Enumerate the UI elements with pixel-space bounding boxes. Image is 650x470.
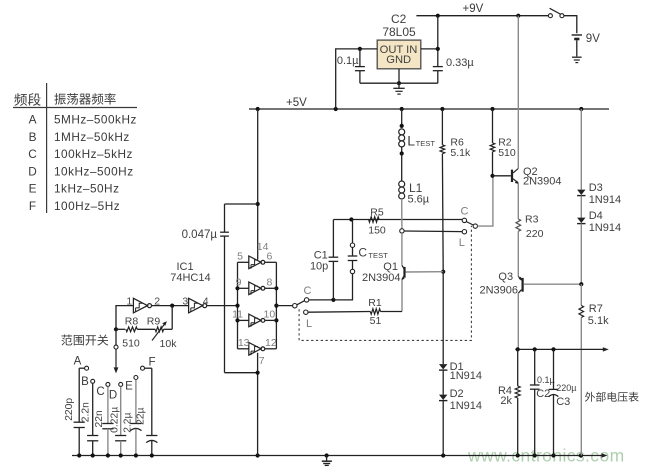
svg-text:A: A [74, 356, 82, 368]
junction ground rail / cap E [134, 453, 138, 457]
svg-text:2N3904: 2N3904 [362, 272, 401, 284]
switch common (right) [473, 224, 477, 228]
wire Q3 base to D4 node [524, 283, 582, 285]
junction dot feedback node [170, 304, 174, 308]
svg-text:78L05: 78L05 [382, 25, 416, 39]
svg-text:A: A [29, 113, 37, 127]
power switch [548, 14, 552, 18]
resistor R4 2k [517, 349, 519, 386]
svg-text:22n: 22n [94, 410, 105, 427]
svg-text:1MHz–50kHz: 1MHz–50kHz [54, 130, 130, 144]
svg-text:12: 12 [265, 337, 277, 349]
junction +5V rail / pin14 line [256, 107, 260, 111]
table header underline [13, 107, 137, 109]
svg-text:0.1µ: 0.1µ [337, 55, 359, 67]
diode D4 1N914 [577, 218, 585, 223]
ground below battery [572, 56, 582, 58]
+5V rail [249, 108, 609, 110]
wire GND pin [398, 69, 400, 83]
svg-text:150: 150 [368, 225, 386, 237]
range switch pole [115, 329, 117, 345]
wire bank output to switch [276, 305, 292, 307]
svg-text:100kHz–5kHz: 100kHz–5kHz [54, 147, 133, 161]
transistor Q2 2N3904 [493, 175, 511, 177]
svg-text:0.22µ: 0.22µ [110, 407, 121, 433]
terminal L node [400, 229, 404, 233]
wire R5 node [333, 219, 462, 221]
svg-text:D: D [109, 389, 117, 401]
junction dot +9V rail / regulator IN [436, 14, 440, 18]
switch lever (right) [466, 222, 473, 225]
junction dot pin7/0.047 [256, 371, 260, 375]
svg-text:100Hz–5Hz: 100Hz–5Hz [54, 199, 120, 213]
svg-text:510: 510 [498, 147, 516, 159]
junction +5V rail / L_TEST [400, 107, 404, 111]
svg-text:1N914: 1N914 [589, 194, 621, 206]
svg-text:L: L [407, 133, 415, 149]
junction ground rail / pin7 [256, 453, 260, 457]
wire Q3 collector [517, 293, 519, 350]
node C throw (right) [462, 218, 466, 222]
svg-text:10: 10 [264, 309, 276, 321]
junction ground rail / cap A [77, 453, 81, 457]
ground rail [72, 455, 602, 457]
wire +5V to L_TEST [401, 109, 403, 128]
svg-text:5.6µ: 5.6µ [408, 194, 430, 206]
wire IN pin to +9V [421, 48, 438, 50]
node C contact [106, 382, 110, 386]
junction dot 0.047µ node [256, 202, 260, 206]
svg-text:R5: R5 [370, 206, 384, 218]
junction voltmeter line / C3 [551, 347, 555, 351]
resistor R5 150 [369, 217, 380, 223]
svg-text:D4: D4 [589, 210, 603, 222]
node E contact [134, 376, 138, 380]
wire D4 to Q3 base node [580, 224, 582, 285]
junction output bus y305.6 [274, 304, 278, 308]
node A contact [85, 366, 89, 370]
svg-text:+5V: +5V [286, 97, 307, 109]
wire inverter3 out to bank input [207, 305, 238, 307]
svg-text:510: 510 [122, 338, 140, 350]
wire pin 14 VCC [257, 109, 259, 260]
wire inverter bank output bus [275, 262, 277, 349]
svg-text:D2: D2 [450, 388, 464, 400]
svg-text:E: E [29, 182, 37, 196]
wire regulator bottom [360, 82, 438, 84]
junction ground rail / C2 [533, 453, 537, 457]
resistor R7 5.1k [580, 284, 582, 305]
junction ground rail / D2 [441, 453, 445, 457]
junction ground rail / cap D [119, 453, 123, 457]
table header 振荡器频率 [54, 93, 115, 105]
svg-text:D3: D3 [589, 182, 603, 194]
label 范围开关 [61, 334, 108, 345]
inductor L_TEST [399, 129, 405, 135]
svg-text:F: F [29, 199, 36, 213]
svg-text:22µ: 22µ [136, 407, 147, 424]
svg-text:D: D [28, 164, 37, 178]
resistor R9 (variable) [137, 328, 155, 330]
terminal dot L_TEST top [400, 124, 404, 128]
dashed shield box [299, 226, 471, 341]
junction ground rail / cap F [150, 453, 154, 457]
capacitor 0.1µ (regulator output) [359, 49, 361, 67]
svg-text:13: 13 [238, 337, 250, 349]
wire switch to battery [564, 16, 577, 34]
junction dot Q3 base / D4 node [579, 282, 583, 286]
wire Q1 emitter [401, 280, 403, 312]
resistor R2 510 [492, 109, 494, 143]
wire +5V to D3 [580, 109, 582, 190]
svg-text:TEST: TEST [368, 251, 388, 260]
svg-text:E: E [125, 380, 133, 392]
svg-text:C: C [461, 206, 469, 218]
terminal dot L_TEST bottom [401, 147, 403, 154]
capacitor 220p [78, 368, 80, 422]
svg-text:9V: 9V [586, 33, 600, 45]
wire inverter1 input [116, 306, 133, 330]
junction input bus y320.4 [235, 318, 239, 322]
junction dot R8 node [114, 327, 118, 331]
capacitor 22µ [151, 368, 153, 435]
svg-text:2.2n: 2.2n [80, 402, 91, 422]
wire D3 to D4 [580, 196, 582, 218]
svg-text:C2: C2 [391, 12, 407, 26]
svg-text:8: 8 [267, 277, 273, 289]
wire +9V to Q2 collector [517, 16, 519, 169]
svg-text:1N914: 1N914 [450, 370, 482, 382]
svg-text:5: 5 [237, 251, 243, 263]
resistor R3 220 [516, 219, 521, 231]
svg-text:220: 220 [526, 228, 544, 240]
junction voltmeter line / C2 [533, 347, 537, 351]
svg-text:F: F [148, 357, 155, 369]
node F contact [141, 366, 145, 370]
wire D2 to ground rail [442, 401, 444, 456]
capacitor 0.22µ [120, 387, 122, 436]
svg-text:R8: R8 [125, 315, 139, 327]
svg-text:B: B [29, 130, 37, 144]
op-amp IC1 inverter 5-6 [238, 261, 249, 263]
svg-text:9: 9 [236, 277, 242, 289]
svg-text:1N914: 1N914 [450, 400, 482, 412]
svg-text:C3: C3 [556, 396, 570, 408]
svg-text:7: 7 [259, 355, 265, 367]
svg-text:5MHz–500kHz: 5MHz–500kHz [54, 113, 137, 127]
svg-text:220µ: 220µ [556, 383, 576, 393]
svg-text:5.1k: 5.1k [588, 315, 609, 327]
svg-text:2k: 2k [500, 395, 512, 407]
svg-text:3: 3 [182, 296, 188, 308]
label 外部电压表 [585, 392, 639, 402]
table divider line [46, 83, 48, 213]
svg-text:74HC14: 74HC14 [170, 272, 210, 284]
capacitor C3 220µ [553, 349, 555, 389]
capacitor C2 0.1µ [534, 349, 536, 385]
wire L throw to R1 [308, 311, 370, 314]
svg-text:220p: 220p [64, 398, 75, 421]
op-amp IC1 inverter 1-2 [133, 298, 147, 313]
junction ground rail / cap C [106, 453, 110, 457]
battery 9V [572, 34, 582, 36]
svg-text:10kHz–500Hz: 10kHz–500Hz [54, 164, 134, 178]
svg-text:C: C [28, 147, 37, 161]
svg-text:Q3: Q3 [498, 271, 513, 283]
resistor R1 51 [370, 309, 380, 314]
junction +5V rail / R2 [490, 107, 494, 111]
wire Q2 emitter to R3 [517, 183, 519, 219]
wire L1 to L terminal [401, 199, 403, 229]
transistor Q3 2N3906 [518, 276, 521, 280]
wire R3 to Q3 emitter [517, 231, 519, 276]
svg-text:L: L [306, 318, 312, 330]
junction output bus y288.3 [274, 286, 278, 290]
svg-text:2.2µ: 2.2µ [122, 412, 133, 432]
junction dot C1 bottom [331, 298, 335, 302]
junction ground rail / cap B [91, 453, 95, 457]
svg-text:2N3906: 2N3906 [480, 284, 519, 296]
svg-text:0.1µ: 0.1µ [537, 375, 555, 385]
svg-text:C2: C2 [536, 388, 550, 400]
op-amp IC1 inverter 11-10 [238, 319, 249, 321]
wire pin 7 GND [257, 353, 259, 456]
junction dot OUT wire [358, 47, 362, 51]
svg-text:10p: 10p [310, 261, 328, 273]
svg-text:51: 51 [370, 315, 382, 327]
junction dot GND wire [397, 81, 401, 85]
op-amp IC1 inverter 9-8 [238, 287, 249, 289]
svg-text:10k: 10k [160, 338, 178, 350]
junction dot Q1 base [441, 270, 445, 274]
wire L terminal to Q1 collector [401, 233, 403, 265]
table header 频段 [14, 93, 40, 106]
node C throw (left) [304, 298, 308, 302]
node L throw (left) [304, 310, 308, 314]
svg-text:L: L [459, 237, 465, 249]
wire D1 to D2 [442, 370, 444, 395]
capacitor C1 10p [332, 261, 334, 300]
transistor Q1 2N3904 [406, 271, 444, 273]
svg-text:R7: R7 [589, 303, 603, 315]
switch lever [297, 301, 305, 305]
svg-text:R3: R3 [525, 214, 539, 226]
capacitor 2.2n [92, 384, 94, 436]
svg-text:14: 14 [257, 241, 269, 253]
capacitor 22n [107, 387, 109, 424]
junction dot IN pin [436, 47, 440, 51]
wire to 0.047µ [225, 203, 258, 205]
svg-text:Q1: Q1 [383, 261, 398, 273]
junction dot +9V rail / Q2 collector line [516, 14, 520, 18]
node D contact [119, 382, 123, 386]
wire voltmeter + line [515, 348, 604, 350]
junction ground rail / R7 [579, 453, 583, 457]
svg-text:R9: R9 [147, 315, 161, 327]
wire common to Q2 base node [478, 178, 493, 226]
svg-text:5.1k: 5.1k [450, 147, 471, 159]
switch common (left SPDT) [293, 304, 297, 308]
svg-text:GND: GND [386, 54, 411, 66]
node L throw (right) [462, 230, 466, 234]
junction +5V rail / R6 [440, 107, 444, 111]
capacitor 0.33µ (regulator input) [437, 49, 439, 67]
diode D2 1N914 [439, 395, 447, 400]
junction +5V rail / regulator out [334, 107, 338, 111]
op-amp IC1 inverter 3-4 [189, 298, 203, 313]
ground symbol on rail [326, 456, 328, 462]
svg-text:1N914: 1N914 [589, 222, 621, 234]
svg-text:C: C [96, 386, 104, 398]
svg-text:C: C [304, 285, 312, 297]
junction input bus y288.3 [235, 286, 239, 290]
diode D3 1N914 [577, 190, 585, 195]
wire C throw to C_TEST bottom [309, 274, 353, 300]
svg-text:C: C [358, 246, 367, 260]
junction output bus y320.4 [274, 318, 278, 322]
wire inverter1 out to inverter3 in [152, 305, 189, 307]
range switch wiper arrow [115, 349, 117, 368]
resistor R6 5.1k [441, 109, 443, 145]
wire R9 to feedback node [171, 306, 173, 330]
svg-text:0.33µ: 0.33µ [446, 57, 474, 69]
svg-text:0.047µ: 0.047µ [182, 229, 218, 241]
capacitor 2.2µ [135, 380, 137, 424]
capacitor 0.047µ [224, 204, 226, 232]
arrow ground rail to voltmeter [602, 453, 608, 457]
regulator 78L05 box [377, 40, 421, 69]
junction input bus y305.6 [235, 304, 239, 308]
svg-text:11: 11 [232, 309, 243, 321]
junction dot Q2 base node [490, 174, 494, 178]
svg-text:2N3904: 2N3904 [523, 176, 562, 188]
junction voltmeter line / R4 [516, 347, 520, 351]
wire OUT pin to +5V rail [336, 49, 378, 109]
junction ground rail / R4 [516, 453, 520, 457]
svg-text:1: 1 [126, 296, 132, 308]
diode D1 1N914 [439, 364, 447, 369]
op-amp IC1 inverter 13-12 [238, 348, 249, 350]
svg-text:R1: R1 [368, 297, 382, 309]
wire L throw (right switch) [404, 230, 462, 233]
resistor R8 [116, 328, 125, 330]
svg-text:TEST: TEST [416, 139, 436, 148]
inductor L1 5.6µ [399, 181, 405, 187]
wire +9V rail [416, 15, 549, 17]
wire inverter bank input bus [237, 262, 239, 349]
junction ground rail / ground symbol [325, 453, 329, 457]
junction dot C_TEST top [349, 217, 353, 221]
wire Q1 base node to D1 [442, 272, 444, 364]
svg-text:B: B [81, 376, 89, 388]
junction ground rail / C3 [551, 453, 555, 457]
junction +5V rail / D3 chain [579, 107, 583, 111]
ground below regulator [398, 83, 400, 88]
svg-text:1kHz–50Hz: 1kHz–50Hz [54, 182, 119, 196]
wire L_TEST to L1 [401, 154, 403, 182]
node B contact [91, 379, 95, 383]
svg-text:+9V: +9V [463, 3, 484, 15]
capacitor C_TEST (terminals) [352, 220, 354, 244]
